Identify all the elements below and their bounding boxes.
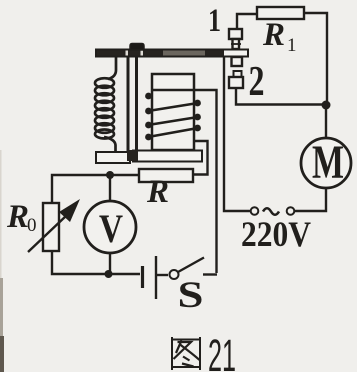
- svg-text:1: 1: [287, 35, 297, 56]
- scan edge left: [0, 150, 2, 290]
- AC source 220V: [251, 207, 295, 215]
- wire contact 1 to R1: [237, 14, 257, 31]
- wire coil to resistor R: [193, 141, 208, 175]
- wire R to node B and rheostat: [52, 175, 139, 203]
- wire node A to motor: [325, 101, 327, 139]
- wire rheostat to battery: [52, 251, 140, 274]
- coil winding: [148, 90, 198, 137]
- svg-text:0: 0: [27, 215, 37, 236]
- battery: [143, 256, 169, 299]
- motor M: [301, 138, 351, 188]
- pivot block: [130, 44, 144, 51]
- armature bar: [96, 50, 248, 57]
- svg-text:R: R: [146, 174, 169, 210]
- base bar: [96, 150, 202, 163]
- switch S: [170, 258, 218, 280]
- wire coil to switch: [194, 90, 217, 273]
- svg-text:2: 2: [249, 59, 265, 105]
- resistor R: [139, 169, 193, 182]
- rheostat R0: [28, 199, 80, 252]
- node C: [105, 270, 113, 278]
- svg-text:1: 1: [208, 3, 221, 39]
- coil bobbin: [152, 74, 194, 150]
- svg-text:R: R: [6, 199, 29, 235]
- wire R1 to node A: [304, 13, 327, 101]
- caption glyph tu (figure): [172, 337, 200, 370]
- wire motor to AC source: [295, 188, 326, 211]
- svg-text:V: V: [99, 206, 123, 251]
- wire contact 2 to node A: [236, 88, 322, 105]
- wire node B to voltmeter: [109, 175, 111, 201]
- voltmeter V: [84, 201, 136, 253]
- wire AC source to armature: [224, 56, 251, 211]
- moving contact: [232, 57, 243, 66]
- node B: [106, 171, 114, 179]
- core rod: [128, 56, 137, 152]
- svg-text:M: M: [312, 136, 344, 189]
- resistor R1: [257, 7, 304, 19]
- spring: [95, 56, 116, 152]
- svg-text:21: 21: [208, 330, 236, 372]
- contact 1: [229, 29, 242, 49]
- node A: [322, 101, 331, 110]
- wire voltmeter to node C: [109, 253, 111, 274]
- svg-text:220V: 220V: [241, 214, 311, 254]
- svg-text:R: R: [262, 17, 285, 53]
- svg-text:S: S: [178, 275, 204, 316]
- contact 2: [229, 71, 243, 88]
